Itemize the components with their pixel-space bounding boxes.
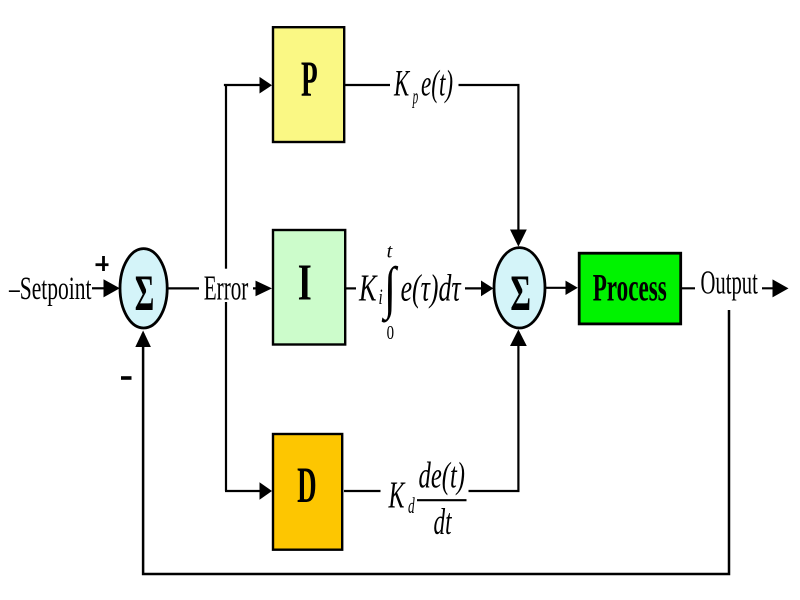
label plus sign: [96, 256, 109, 271]
block Process: [579, 253, 681, 324]
wire formula Kp to sum2 top: [459, 85, 519, 231]
label I: [298, 254, 312, 311]
svg-text:Σ: Σ: [510, 266, 531, 322]
svg-text:0: 0: [387, 322, 394, 344]
white mask behind Error label: [199, 269, 253, 302]
label Process: [593, 266, 667, 309]
wire formula Ki to sum2: [465, 287, 483, 289]
label Setpoint: [8, 271, 91, 307]
arrowhead into Process: [566, 281, 578, 295]
label Error: [204, 269, 249, 307]
svg-text:de(t): de(t): [419, 456, 466, 497]
wire formula Kd to sum2 bottom: [469, 344, 519, 491]
svg-text:dt: dt: [434, 502, 453, 543]
wire sum1 to I (Error line): [166, 287, 256, 289]
wire top row to P: [225, 85, 260, 86]
svg-text:e(τ)dτ: e(τ)dτ: [401, 268, 462, 310]
arrowhead into sum2 top: [510, 230, 527, 247]
sigma glyph in sum1: [135, 266, 155, 322]
svg-text:Output: Output: [701, 265, 759, 302]
svg-text:I: I: [298, 254, 312, 311]
wire setpoint to sum1: [92, 287, 108, 289]
wire feedback down from output branch: [143, 288, 729, 574]
formula Kd de(t)/dt: [388, 456, 467, 544]
svg-text:Process: Process: [593, 266, 667, 309]
label minus sign: [121, 376, 132, 380]
arrowhead into sum1: [104, 279, 120, 297]
summing junction sum1: [120, 249, 167, 328]
wire bottom row to D: [225, 490, 261, 492]
svg-text:K: K: [388, 475, 406, 517]
block D: [273, 434, 342, 550]
arrowhead into sum2 bottom: [510, 330, 527, 347]
svg-text:i: i: [379, 284, 383, 309]
summing junction sum2: [494, 248, 545, 328]
svg-text:Error: Error: [204, 269, 249, 307]
svg-text:D: D: [297, 458, 317, 514]
block P: [273, 27, 344, 142]
arrowhead into D: [260, 482, 273, 500]
formula Kp e(t): [393, 64, 453, 109]
arrowhead into sum2 left: [481, 281, 493, 297]
label D: [297, 458, 317, 514]
arrowhead into P: [260, 77, 273, 94]
arrowhead output right: [773, 279, 789, 297]
svg-text:∫: ∫: [381, 255, 398, 323]
label P: [301, 52, 318, 108]
block I: [273, 230, 345, 345]
svg-text:K: K: [358, 268, 377, 310]
wire P to formula Kp: [345, 84, 390, 86]
svg-text:t: t: [387, 241, 393, 263]
svg-text:Σ: Σ: [135, 266, 155, 322]
svg-text:–Setpoint: –Setpoint: [8, 271, 91, 307]
wire sum2 to Process: [544, 287, 567, 289]
wire I to formula Ki: [345, 287, 356, 289]
formula Ki integral e(tau) dtau: [358, 241, 461, 345]
wire Process to Output arrow: [682, 287, 779, 289]
white mask behind Output label: [695, 269, 762, 310]
arrowhead into I: [256, 281, 273, 297]
svg-text:d: d: [408, 493, 415, 518]
svg-text:p: p: [412, 83, 419, 108]
label Output: [701, 265, 759, 302]
svg-text:P: P: [301, 52, 318, 108]
svg-text:e(t): e(t): [421, 64, 453, 105]
wire D to formula Kd: [344, 490, 381, 492]
arrowhead feedback into sum1 bottom: [135, 331, 151, 348]
svg-text:K: K: [393, 64, 410, 105]
wire vertical branch at x=226: [225, 85, 227, 491]
sigma glyph in sum2: [510, 266, 531, 322]
